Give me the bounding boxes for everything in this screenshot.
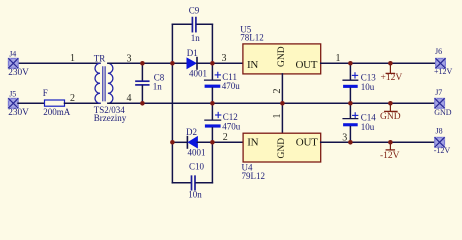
svg-text:C14: C14: [361, 112, 377, 122]
connector J4: [8, 49, 29, 78]
capacitor C12 electrolytic: [205, 103, 241, 142]
wire secondary top to D1 anode: [108, 62, 187, 64]
junction C14 bottom: [348, 140, 353, 145]
junction C8 top: [140, 61, 145, 66]
svg-text:200mA: 200mA: [43, 107, 71, 117]
svg-text:IN: IN: [247, 59, 258, 71]
svg-text:78L12: 78L12: [240, 33, 263, 43]
junction GND port: [388, 101, 393, 106]
svg-text:GND: GND: [434, 108, 452, 117]
svg-text:230V: 230V: [8, 68, 29, 78]
svg-text:1: 1: [336, 53, 341, 64]
wire U4 OUT to J8: [321, 141, 436, 143]
capacitor C10 bridge: [172, 142, 212, 199]
transformer TR primary winding: [95, 63, 100, 103]
wire J5 to fuse: [18, 102, 45, 104]
svg-text:3: 3: [342, 133, 347, 144]
fuse F 200mA: [43, 88, 71, 117]
svg-text:4001: 4001: [189, 69, 207, 79]
junction +12V: [388, 61, 393, 66]
U4 GND pin wire: [281, 103, 283, 133]
svg-text:+12V: +12V: [381, 73, 403, 83]
svg-text:D1: D1: [187, 48, 198, 58]
vertical net x=212.4: [211, 63, 213, 79]
svg-text:1n: 1n: [191, 33, 201, 43]
capacitor C11 electrolytic: [205, 72, 241, 103]
svg-text:-12V: -12V: [380, 151, 400, 161]
wire J4 to transformer primary top: [18, 62, 100, 64]
transformer TR secondary winding: [108, 63, 113, 103]
svg-text:C12: C12: [223, 112, 238, 122]
U5 GND pin wire: [281, 74, 283, 103]
vertical net pin3 node x=172: [171, 63, 173, 142]
junction C8 bottom: [140, 101, 145, 106]
svg-text:C13: C13: [361, 72, 377, 82]
power port +12V: [381, 63, 403, 83]
svg-text:OUT: OUT: [296, 59, 318, 71]
svg-text:-12V: -12V: [434, 146, 451, 155]
svg-text:79L12: 79L12: [242, 171, 266, 181]
svg-text:J7: J7: [435, 88, 442, 97]
svg-text:470u: 470u: [222, 81, 241, 91]
svg-text:D2: D2: [186, 127, 197, 137]
svg-text:2: 2: [70, 93, 75, 104]
svg-text:C10: C10: [189, 162, 205, 172]
svg-text:1: 1: [272, 114, 283, 119]
junction D2 cathode: [170, 140, 175, 145]
capacitor C13 electrolytic: [343, 63, 376, 103]
capacitor C14 electrolytic: [343, 103, 376, 142]
junction D2 anode: [210, 140, 215, 145]
junction -12V: [388, 140, 393, 145]
svg-text:4: 4: [127, 93, 132, 104]
svg-text:3: 3: [222, 53, 227, 64]
svg-text:10n: 10n: [188, 190, 202, 200]
svg-text:C9: C9: [189, 6, 200, 16]
transformer core: [102, 67, 104, 101]
power port GND: [380, 103, 401, 122]
svg-text:GND: GND: [277, 138, 287, 159]
junction D1 cathode: [210, 61, 215, 66]
connector J7: [434, 88, 452, 117]
GND rail y=103: [108, 102, 435, 104]
svg-text:GND: GND: [380, 112, 401, 122]
svg-text:4001: 4001: [188, 148, 206, 158]
svg-text:2: 2: [223, 132, 228, 143]
connector J6: [434, 47, 453, 76]
diode D1: [187, 48, 243, 79]
svg-text:F: F: [43, 88, 48, 98]
connector J8: [434, 127, 451, 156]
junction D1 anode: [170, 61, 175, 66]
svg-text:IN: IN: [247, 136, 258, 148]
svg-text:10u: 10u: [361, 82, 375, 92]
svg-text:230V: 230V: [8, 108, 29, 118]
junction C11 bottom / C12 top: [210, 101, 215, 106]
svg-text:Brzeziny: Brzeziny: [94, 113, 127, 123]
regulator U4 79L12: [242, 133, 321, 181]
power port -12V: [380, 142, 400, 161]
svg-text:+12V: +12V: [434, 67, 453, 76]
svg-text:J8: J8: [436, 127, 443, 136]
junction C13 bottom: [348, 101, 353, 106]
diode D2: [172, 127, 243, 158]
wire U5 OUT to J6: [321, 62, 436, 64]
capacitor C8: [136, 63, 165, 103]
svg-text:3: 3: [127, 54, 132, 65]
junction C13 top: [348, 61, 353, 66]
capacitor C9 bridge: [172, 6, 212, 64]
svg-text:10u: 10u: [361, 122, 375, 132]
svg-text:GND: GND: [277, 46, 287, 67]
regulator U5 78L12: [240, 24, 320, 74]
svg-text:1: 1: [70, 53, 75, 64]
connector J5: [8, 89, 29, 118]
svg-text:TR: TR: [94, 54, 106, 64]
junction U5/U4 GND: [280, 101, 285, 106]
svg-text:J6: J6: [435, 47, 442, 56]
svg-text:1n: 1n: [153, 81, 163, 91]
svg-text:J5: J5: [9, 89, 16, 98]
svg-text:J4: J4: [9, 49, 16, 58]
wire fuse to transformer primary bottom: [65, 102, 101, 104]
svg-text:470u: 470u: [222, 122, 241, 132]
svg-text:2: 2: [272, 89, 283, 94]
svg-text:OUT: OUT: [296, 136, 318, 148]
